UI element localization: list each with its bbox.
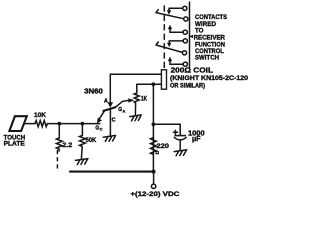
resistor 10K [35,121,47,127]
svg-text:10K: 10K [34,112,46,119]
wire coil bottom terminal to +V rail [137,83,162,85]
wire from NC terminal K1a [169,8,183,10]
wire right bus beside contacts [189,2,191,68]
touch plate electrode [9,116,26,131]
capacitor C1 top plate [174,135,186,137]
arrow down K1b [167,43,171,48]
mechanical linkage dashed line to coil [163,6,165,70]
node junction rail/terminal [152,170,156,174]
capacitor C1 lower lead [179,141,181,150]
wire from NC terminal K1b [169,41,183,43]
arrow on anode-gate lead [128,98,134,102]
wire to capacitor [153,124,180,135]
arrow up K1b [168,57,172,62]
arrow on cathode-gate lead [97,118,102,124]
plus sign polarity mark [173,130,177,134]
node junction coil/+V [152,82,156,86]
contact K1a NO terminal circle [183,30,187,34]
node junction capacitor tap [152,122,156,126]
svg-text:3N60: 3N60 [84,89,103,96]
svg-text:C: C [112,118,116,124]
wire 10K to gate node [47,123,99,125]
ground at cathode [103,135,115,141]
ground below capacitor [174,150,187,156]
capacitor C1 bottom plate [174,137,186,140]
svg-text:SWITCH: SWITCH [195,55,219,62]
wire touch plate to 10K [24,123,35,125]
svg-text:C: C [100,128,103,132]
arrow up K1a [168,25,172,30]
SCS Q1 cathode-gate lead [99,111,104,119]
+V supply rail [70,171,154,173]
resistor 2.2 [56,124,62,151]
svg-text:TO: TO [195,28,204,35]
svg-text:+(12-20) VDC: +(12-20) VDC [130,191,179,198]
svg-text:µF: µF [192,136,201,143]
svg-text:A: A [123,109,126,113]
resistor 50K [80,124,86,159]
svg-text:200Ω COIL: 200Ω COIL [171,68,214,75]
SCS Q1 anode arrow [108,102,114,107]
wire anode to coil top terminal [110,74,161,103]
contact K1b common terminal circle [182,51,186,55]
dashed wire below 2.2 [56,151,58,173]
relay coil K1 [161,70,166,89]
SCS Q1 cathode wire [109,109,111,135]
wire to supply terminal [153,172,155,184]
supply terminal circle [151,184,155,188]
svg-text:(KNIGHT KN105-2C-120: (KNIGHT KN105-2C-120 [170,75,248,82]
contact K1b NC terminal circle [183,39,187,43]
svg-text:2.2: 2.2 [62,142,72,149]
contact K1a NC terminal circle [183,6,187,10]
contact blade K1a [156,10,183,19]
contact blade K1b [156,42,182,52]
wire +V vertical line [152,84,154,171]
ground below 50K [75,159,88,165]
contact K1a common terminal circle [184,17,188,21]
contact K1b NO terminal circle [183,62,187,66]
arrow down K1a [167,10,171,15]
svg-text:50K: 50K [86,137,97,144]
resistor 220 [151,138,157,155]
svg-text:Ω: Ω [155,150,159,155]
svg-text:A: A [104,98,108,104]
wire from NO terminal K1b [170,61,183,64]
resistor 1K [134,84,139,114]
SCS Q1 anode-gate lead [115,100,129,107]
svg-text:1K: 1K [141,96,148,102]
arrow pointing left at RECEIVER [189,35,193,38]
node junction 50K [81,122,85,126]
node junction 2.2 [57,122,61,126]
wire from NO terminal K1a [170,29,183,32]
svg-text:PLATE: PLATE [4,140,26,147]
svg-text:OR SIMILAR): OR SIMILAR) [170,83,205,90]
SCS Q1 bar [103,107,115,111]
ground below 1K [130,115,141,121]
